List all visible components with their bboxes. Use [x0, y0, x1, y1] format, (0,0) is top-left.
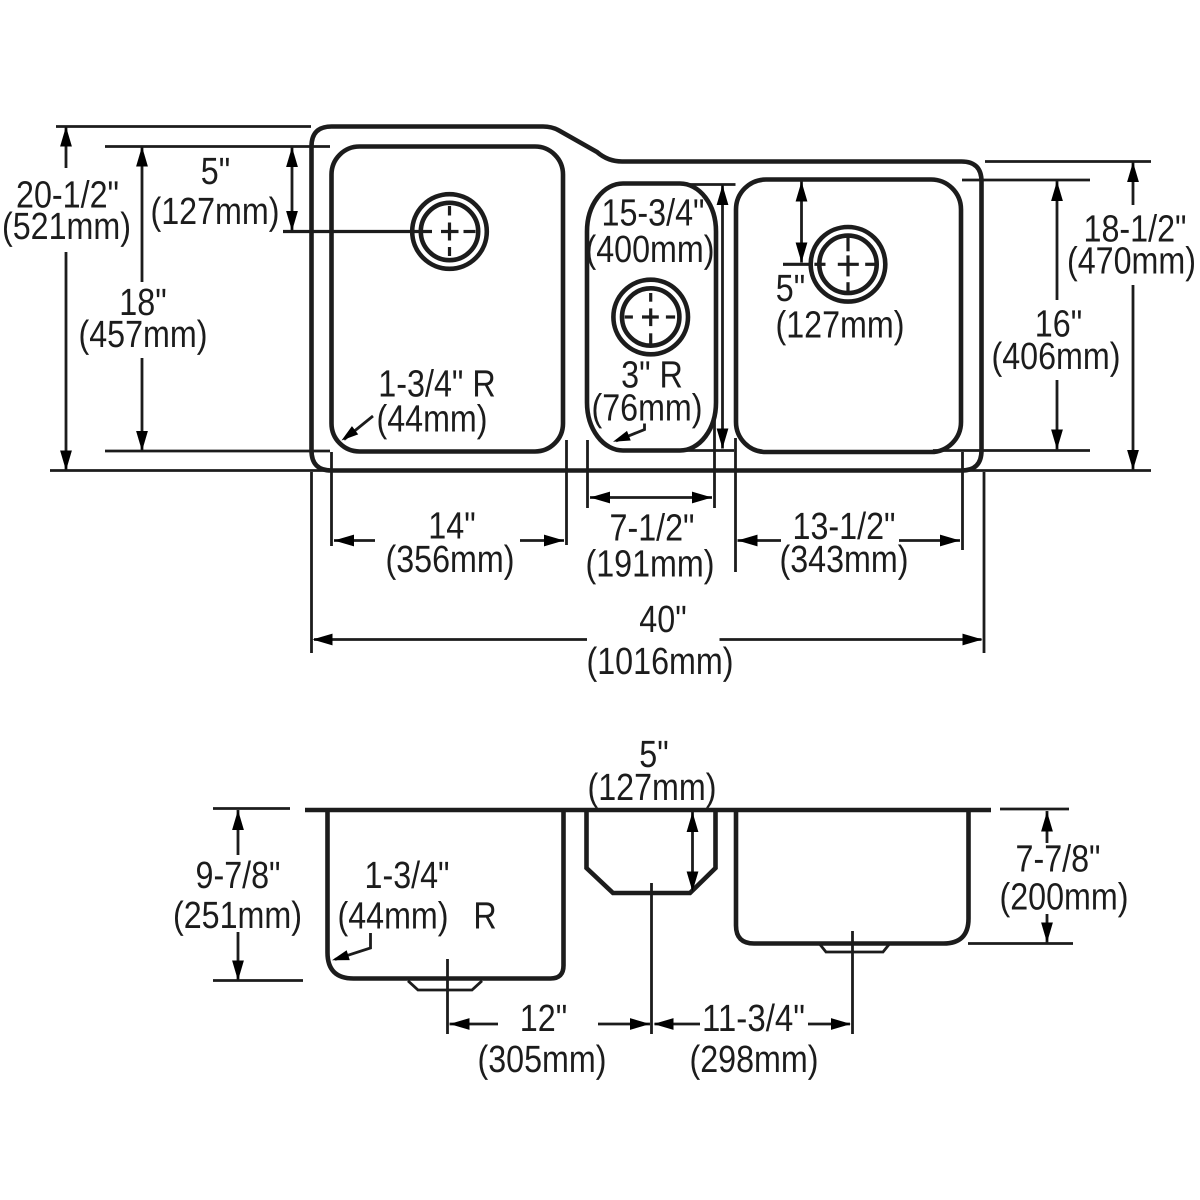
- svg-text:12": 12": [520, 998, 567, 1040]
- svg-text:(127mm): (127mm): [151, 191, 280, 233]
- svg-text:5": 5": [201, 151, 230, 193]
- svg-text:7-7/8": 7-7/8": [1016, 839, 1101, 881]
- svg-text:(356mm): (356mm): [386, 539, 515, 581]
- svg-text:(305mm): (305mm): [478, 1039, 607, 1081]
- svg-text:(127mm): (127mm): [776, 305, 905, 347]
- svg-text:(127mm): (127mm): [588, 767, 717, 809]
- svg-text:(76mm): (76mm): [592, 388, 703, 430]
- svg-text:R: R: [473, 896, 496, 938]
- svg-text:11-3/4": 11-3/4": [702, 998, 805, 1040]
- svg-text:(406mm): (406mm): [992, 336, 1121, 378]
- svg-text:(191mm): (191mm): [586, 544, 715, 586]
- svg-text:(521mm): (521mm): [2, 206, 131, 248]
- svg-text:9-7/8": 9-7/8": [196, 855, 281, 897]
- svg-text:(44mm): (44mm): [377, 399, 488, 441]
- svg-text:1-3/4": 1-3/4": [365, 855, 450, 897]
- svg-text:(200mm): (200mm): [1000, 877, 1129, 919]
- svg-text:(457mm): (457mm): [79, 314, 208, 356]
- svg-text:(343mm): (343mm): [780, 539, 909, 581]
- svg-text:(470mm): (470mm): [1067, 241, 1196, 283]
- svg-text:(251mm): (251mm): [173, 895, 302, 937]
- svg-text:40": 40": [639, 599, 686, 641]
- svg-text:(400mm): (400mm): [586, 229, 715, 271]
- svg-text:(1016mm): (1016mm): [587, 641, 734, 683]
- svg-text:(298mm): (298mm): [690, 1039, 819, 1081]
- svg-text:(44mm): (44mm): [338, 896, 449, 938]
